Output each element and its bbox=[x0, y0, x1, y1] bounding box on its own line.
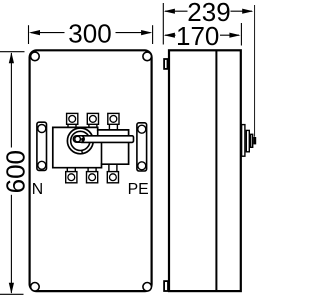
svg-text:N: N bbox=[32, 181, 43, 198]
svg-text:170: 170 bbox=[176, 21, 219, 51]
svg-text:PE: PE bbox=[128, 181, 149, 198]
svg-text:600: 600 bbox=[0, 150, 30, 193]
svg-text:300: 300 bbox=[68, 18, 111, 48]
